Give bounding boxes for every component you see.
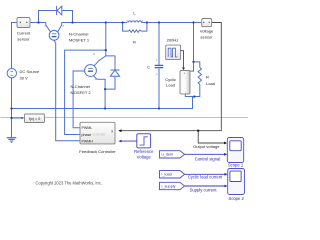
svg-text:u_dem: u_dem [162, 153, 174, 157]
svg-text:MOSFET 1: MOSFET 1 [69, 38, 90, 43]
svg-text:Reference: Reference [134, 149, 154, 154]
svg-text:Cyclic: Cyclic [165, 77, 176, 82]
svg-text:Voltage: Voltage [137, 154, 152, 159]
svg-text:PWML: PWML [82, 126, 93, 130]
svg-text:Scope 2: Scope 2 [228, 196, 244, 201]
svg-text:Control signal: Control signal [195, 156, 221, 161]
svg-text:PWMH: PWMH [82, 139, 94, 143]
svg-text:Load: Load [206, 81, 215, 86]
svg-text:controller: controller [93, 133, 107, 137]
svg-text:i_load: i_load [161, 173, 171, 177]
svg-text:L: L [133, 10, 136, 15]
svg-text:N-Channel: N-Channel [71, 84, 90, 89]
svg-text:R: R [133, 40, 136, 45]
svg-text:phase: phase [82, 133, 92, 137]
svg-text:Load: Load [166, 83, 175, 88]
svg-text:i_supply: i_supply [161, 184, 175, 188]
svg-text:f(x) = 0: f(x) = 0 [29, 117, 41, 121]
svg-text:DC Source: DC Source [20, 69, 41, 74]
svg-text:MOSFET 2: MOSFET 2 [71, 90, 92, 95]
svg-text:-: - [185, 90, 186, 94]
svg-text:Cyclic load current: Cyclic load current [188, 175, 223, 180]
svg-text:+: + [183, 72, 185, 76]
svg-text:R: R [206, 75, 209, 80]
svg-text:d: d [93, 52, 95, 56]
svg-text:200Hz: 200Hz [167, 37, 179, 42]
svg-text:30 V: 30 V [20, 76, 29, 81]
svg-text:Feedback Controller: Feedback Controller [79, 149, 116, 154]
svg-text:sensor: sensor [200, 35, 213, 40]
svg-text:N-Channel: N-Channel [69, 32, 88, 37]
svg-text:Scope 1: Scope 1 [228, 162, 244, 167]
svg-text:Voltage: Voltage [200, 29, 214, 34]
svg-text:Current: Current [17, 30, 31, 35]
svg-text:C: C [147, 65, 150, 70]
svg-text:Output voltage: Output voltage [193, 144, 220, 149]
svg-text:Supply current: Supply current [190, 188, 218, 193]
svg-text:Copyright 2023 The MathWorks,: Copyright 2023 The MathWorks, Inc. [36, 181, 103, 186]
svg-text:sensor: sensor [17, 36, 30, 41]
svg-text:s: s [63, 24, 65, 28]
